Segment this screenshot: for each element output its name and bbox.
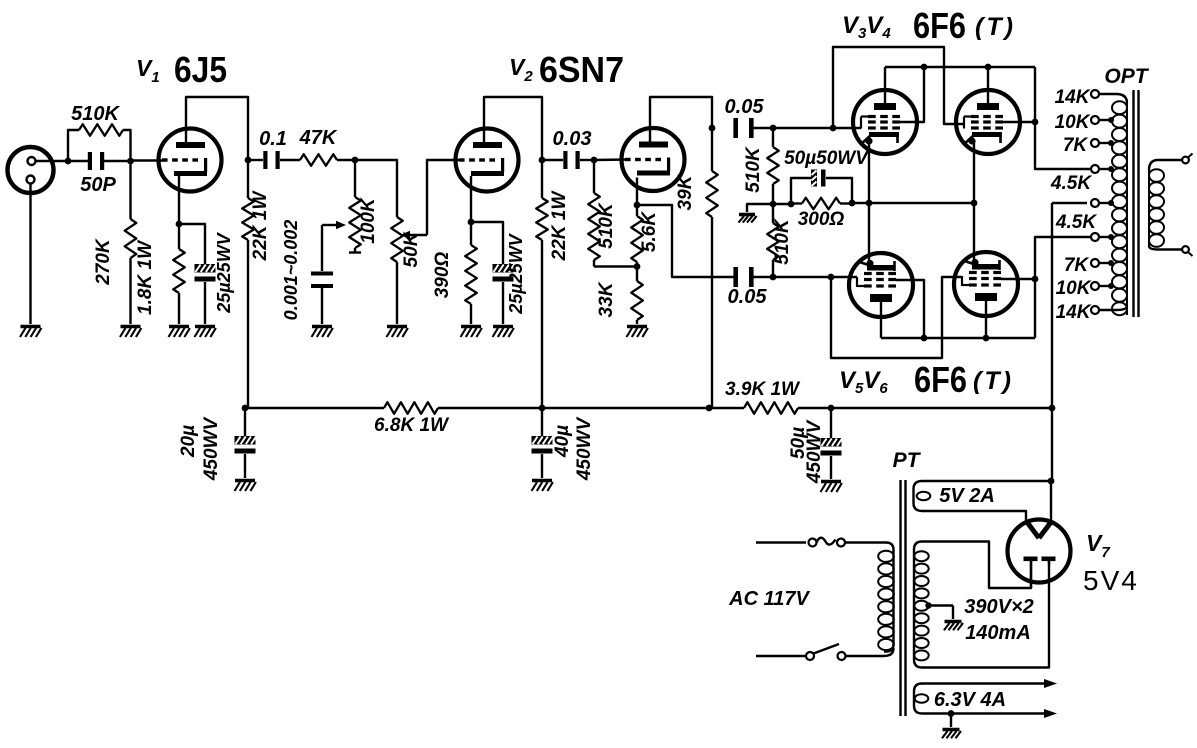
svg-text:(T): (T) <box>975 13 1016 41</box>
node L (top 0.05 out) <box>770 125 777 132</box>
node Q (300ohm left) <box>788 201 795 208</box>
node I (V2b plate / top 0.05) <box>709 125 716 132</box>
svg-text:5V4: 5V4 <box>1083 565 1139 596</box>
svg-text:5V 2A: 5V 2A <box>939 485 995 507</box>
ground (6.3V) <box>942 730 961 739</box>
svg-text:47K: 47K <box>299 127 338 149</box>
node AC (B+ / 39K) <box>706 405 713 412</box>
svg-text:510K: 510K <box>596 202 617 249</box>
node V (V4 plate) <box>985 64 992 71</box>
svg-text:22K 1W: 22K 1W <box>250 190 271 262</box>
node tap45Kb <box>1108 234 1114 240</box>
wire OPT 10K bottom lead <box>1099 285 1111 287</box>
wire OPT 7K lead <box>1099 142 1111 144</box>
wire B+ rail mid <box>438 407 744 409</box>
tube V4 6F6 <box>956 90 1020 154</box>
svg-text:450WV: 450WV <box>804 420 825 485</box>
wire jack hot to grid node <box>36 160 66 162</box>
ground (40u) <box>532 481 553 492</box>
ground (25u V2a) <box>493 327 514 338</box>
wire jack sleeve down <box>29 184 31 324</box>
wire V3 plate lead <box>884 67 886 103</box>
ground (33K) <box>627 327 648 338</box>
wire filament riser <box>1050 481 1052 521</box>
wire V3 screen tie <box>900 67 924 122</box>
wire OPT secondary bottom <box>1149 246 1182 250</box>
resistor 33K <box>636 267 638 282</box>
wire B+ rail left <box>245 407 384 409</box>
ground (270K) <box>120 327 141 338</box>
resistor 39K <box>711 128 713 171</box>
svg-text:0.05: 0.05 <box>725 96 765 118</box>
wire OPT 4.5K top lead <box>1099 168 1111 170</box>
transformer OPT secondary <box>1148 169 1150 247</box>
resistor 22K 1W (V1 plate load) <box>247 160 249 198</box>
svg-text:390V×2: 390V×2 <box>964 596 1034 618</box>
node U (V3 plate) <box>921 64 928 71</box>
wire splitter cathode out <box>637 205 734 277</box>
svg-text:450WV: 450WV <box>201 417 222 482</box>
capacitor 50u450WV <box>830 408 832 438</box>
resistor 390ohm <box>470 222 472 245</box>
svg-text:1.8K 1W: 1.8K 1W <box>135 239 156 315</box>
ground (390ohm) <box>461 327 482 338</box>
svg-text:7K: 7K <box>1063 135 1089 156</box>
svg-text:14K: 14K <box>1056 302 1092 323</box>
node B (V1 grid junction) <box>127 158 134 165</box>
svg-text:(T): (T) <box>973 367 1014 395</box>
node tap7Kt <box>1108 140 1114 146</box>
ground (bias node) <box>739 215 757 223</box>
svg-text:6F6: 6F6 <box>913 5 966 46</box>
wire OPT 10K lead <box>1099 119 1111 121</box>
svg-text:100K: 100K <box>358 197 379 244</box>
wire V4 screen tie <box>1003 121 1035 123</box>
svg-text:50K: 50K <box>401 231 422 267</box>
node J (V2b cathode) <box>634 202 641 209</box>
wire V7 left plate lead <box>1030 561 1032 588</box>
svg-text:0.03: 0.03 <box>553 128 592 150</box>
terminal 4.5K bottom <box>1091 233 1099 241</box>
wire cathode rail <box>852 202 973 204</box>
wire OPT 4.5K bottom lead <box>1099 236 1111 238</box>
wire V4 plate lead <box>987 67 989 103</box>
svg-text:7K: 7K <box>1064 255 1090 276</box>
capacitor 0.05 (bottom) <box>733 267 738 287</box>
svg-text:4.5K: 4.5K <box>1050 173 1092 194</box>
svg-text:510K: 510K <box>71 103 120 125</box>
svg-text:25µ25WV: 25µ25WV <box>506 232 526 314</box>
node Z (screen/plate rise) <box>1032 276 1039 283</box>
svg-text:140mA: 140mA <box>965 622 1031 644</box>
node T (rail/V4V6 cathodes) <box>971 200 978 207</box>
capacitor 0.001~0.002 <box>321 225 323 271</box>
svg-text:AC 117V: AC 117V <box>728 588 810 610</box>
ground (50K) <box>387 327 408 338</box>
wire 47K to node E <box>337 159 355 161</box>
resistor 3.9K 1W <box>744 402 798 414</box>
wire V2b plate to 39K node <box>650 97 712 144</box>
node Y (V6 plate) <box>983 335 990 342</box>
resistor 22K 1W (V2a plate load) <box>541 160 543 198</box>
wire 510K left riser <box>68 130 79 161</box>
switch S1 <box>806 652 814 660</box>
resistor 47K <box>300 154 337 166</box>
wire top 0.05 to V3 grid <box>773 127 861 129</box>
arrow 6.3V bottom <box>1044 709 1057 718</box>
node K (5.6K/33K junction) <box>634 263 641 270</box>
node D (V1 cathode) <box>176 221 183 228</box>
wire HV center tap <box>929 604 954 606</box>
wire AC bottom lead <box>756 655 806 657</box>
transformer PT HV secondary <box>914 542 1049 668</box>
node O (V5 grid) <box>828 274 835 281</box>
wire V1 cathode <box>178 176 180 224</box>
capacitor 50P <box>88 152 92 170</box>
ground (1.8K) <box>169 327 190 338</box>
wire node E to 50K <box>355 160 397 217</box>
tube V2a 6SN7 first half <box>456 129 519 192</box>
wire bottom plate rail to 4.5K tap <box>1035 237 1091 338</box>
wire bias node to 300ohm <box>773 203 791 205</box>
wire OPT CT lead <box>1052 202 1087 204</box>
node C (V1 plate / 0.1 cap) <box>245 157 252 164</box>
capacitor 50u50WV <box>791 178 811 204</box>
potentiometer 50K (volume) <box>391 217 403 262</box>
wire V6 screen tie <box>1001 278 1035 280</box>
capacitor 0.03 <box>542 159 563 161</box>
terminal 10K top <box>1091 116 1099 124</box>
node tap7Kb <box>1108 260 1114 266</box>
svg-text:510K: 510K <box>772 218 793 265</box>
node A (jack/510K junction) <box>65 158 72 165</box>
terminal 14K top <box>1091 90 1099 98</box>
svg-text:OPT: OPT <box>1104 65 1149 88</box>
svg-text:50µ50WV: 50µ50WV <box>784 148 869 169</box>
svg-text:40µ: 40µ <box>552 425 573 458</box>
capacitor 20u450WV <box>244 408 246 436</box>
input jack J1 <box>8 147 54 193</box>
tube V5 6F6 <box>849 253 913 317</box>
wiper arrow 50K <box>400 231 410 239</box>
svg-text:4.5K: 4.5K <box>1055 212 1097 233</box>
wire grid node to V2b <box>594 158 628 161</box>
resistor 1.8K 1W <box>178 224 180 249</box>
svg-text:PT: PT <box>893 449 922 472</box>
svg-text:6.3V 4A: 6.3V 4A <box>934 689 1006 711</box>
svg-text:270K: 270K <box>93 238 114 286</box>
capacitor 25u25WV (V1 bypass) <box>195 264 216 273</box>
resistor 510K (splitter grid) <box>593 160 595 193</box>
resistor 5.6K <box>636 205 638 216</box>
terminal 14K bottom <box>1091 306 1099 314</box>
wire bias node to ground <box>747 204 773 212</box>
wire B+ rail right <box>798 407 1052 409</box>
node P (grid return/bias junction) <box>770 201 777 208</box>
node AD (B+ / 50u) <box>828 405 835 412</box>
resistor 300ohm <box>791 202 802 204</box>
wire V3-V5 cathode line <box>868 141 870 264</box>
wire OPT 14K bottom lead <box>1099 306 1127 310</box>
wire AC top lead <box>756 541 806 543</box>
wire V5 screen tie <box>896 280 924 338</box>
svg-text:6SN7: 6SN7 <box>539 49 624 90</box>
terminal CT <box>1091 199 1099 207</box>
transformer PT core <box>899 480 901 716</box>
svg-text:3.9K 1W: 3.9K 1W <box>725 379 801 400</box>
tube V7 5V4 rectifier <box>1008 520 1071 583</box>
terminal 7K bottom <box>1091 259 1099 267</box>
node W (screen/plate drop) <box>1032 119 1039 126</box>
svg-text:20µ: 20µ <box>178 425 199 458</box>
node R (cathode rail left) <box>849 200 856 207</box>
wire OPT 7K bottom lead <box>1099 262 1111 264</box>
wire cathode to bypass cap 2 <box>471 222 503 264</box>
svg-text:25µ25WV: 25µ25WV <box>214 231 234 313</box>
wire OPT 14K top lead <box>1099 94 1127 103</box>
svg-text:450WV: 450WV <box>574 417 595 482</box>
node tap10Kb <box>1108 283 1114 289</box>
wire top plate rail <box>885 66 1035 68</box>
ground (25u V1) <box>195 327 216 338</box>
wire V3/V4 grid bracket <box>833 47 964 128</box>
node HV center tap <box>925 602 931 608</box>
transformer PT primary <box>845 543 894 652</box>
resistor 270K <box>129 161 131 219</box>
wire V2a plate to top rail <box>484 97 542 160</box>
wire V4-V6 cathode line <box>973 141 975 263</box>
node E (tone/volume junction) <box>352 157 359 164</box>
terminal secondary top <box>1182 157 1189 164</box>
node S (rail/V3V5 cathodes) <box>866 200 873 207</box>
capacitor 25u25WV (V2a bypass) <box>493 264 514 273</box>
svg-text:33K: 33K <box>596 281 617 317</box>
potentiometer 100K (tone) <box>354 160 356 197</box>
fuse F1 <box>809 539 817 547</box>
svg-text:14K: 14K <box>1055 87 1091 108</box>
wire V5 plate lead <box>880 302 882 338</box>
wire V1 plate to top rail <box>186 97 248 160</box>
svg-text:300Ω: 300Ω <box>798 209 845 230</box>
terminal 4.5K top <box>1091 165 1099 173</box>
svg-text:50P: 50P <box>80 174 116 196</box>
capacitor 0.1 <box>248 159 263 161</box>
resistor 510K (input) <box>79 124 123 136</box>
wire OPT secondary top <box>1149 160 1182 170</box>
svg-text:510K: 510K <box>743 146 764 193</box>
node M (V3 grid) <box>830 125 837 132</box>
wire V6 plate lead <box>985 301 987 338</box>
wire 510K right riser <box>123 130 131 161</box>
node AE (B+ / OPT CT line) <box>1049 405 1056 412</box>
svg-text:5.6K: 5.6K <box>639 211 660 252</box>
svg-text:10K: 10K <box>1055 112 1091 133</box>
capacitor 40u450WV <box>541 408 543 436</box>
ground (jack) <box>20 327 41 338</box>
ground (tone cap) <box>312 327 333 338</box>
terminal 10K bottom <box>1091 282 1099 290</box>
node X (V5 plate) <box>921 335 928 342</box>
ground (20u) <box>235 481 256 492</box>
arrow 6.3V top <box>1044 679 1057 688</box>
node F (V2a plate / 0.03 cap) <box>539 157 546 164</box>
svg-text:10K: 10K <box>1056 278 1092 299</box>
wire OPT center tap / B+ to rectifier <box>1051 203 1053 481</box>
wire V5/V6 grid bracket <box>831 277 962 358</box>
svg-text:22K 1W: 22K 1W <box>549 190 570 262</box>
node AF (B+ / 5V / filament) <box>1048 478 1055 485</box>
svg-text:6.8K 1W: 6.8K 1W <box>374 415 450 436</box>
wire bottom 0.05 to V5 grid <box>773 276 857 278</box>
wire V7 right plate lead <box>1048 561 1050 565</box>
resistor 6.8K 1W <box>384 402 438 414</box>
svg-text:0.05: 0.05 <box>728 286 768 308</box>
node tapCT <box>1108 200 1114 206</box>
svg-text:39K: 39K <box>675 174 696 210</box>
tube V1 6J5 <box>159 129 222 192</box>
node H (V2b grid) <box>591 157 598 164</box>
wire V2a cathode <box>470 176 472 222</box>
transformer OPT core <box>1132 90 1134 317</box>
tube V6 6F6 <box>954 252 1018 316</box>
svg-text:390Ω: 390Ω <box>432 252 453 299</box>
wire 50K wiper to V2 grid <box>427 160 460 235</box>
node N (bottom 0.05 out) <box>770 274 777 281</box>
wire cathode to bypass cap <box>179 224 205 264</box>
node tap45Kt <box>1108 166 1114 172</box>
wire plate rail to 4.5K tap <box>1035 67 1091 169</box>
node G (V2a cathode) <box>468 219 475 226</box>
transformer OPT primary <box>1126 101 1128 315</box>
capacitor 0.05 (top) <box>733 118 738 138</box>
wire 6.3V ground stem <box>950 714 952 728</box>
resistor 510K (upper grid return) <box>772 128 774 147</box>
tube V2b 6SN7 second half <box>622 128 685 191</box>
wiper arrow 100K <box>322 224 337 226</box>
transformer PT 5V winding <box>914 481 1050 521</box>
transformer PT 6.3V winding <box>914 684 1052 714</box>
terminal secondary bottom <box>1182 246 1189 253</box>
wire grid node to V1 grid <box>131 159 166 161</box>
terminal 7K top <box>1091 139 1099 147</box>
tube V3 6F6 <box>853 90 917 154</box>
svg-text:0.001~0.002: 0.001~0.002 <box>281 220 301 321</box>
ground (HV CT) <box>944 622 963 631</box>
svg-text:6J5: 6J5 <box>174 49 227 90</box>
wire bottom plate rail <box>881 337 1035 339</box>
ground (50u) <box>821 482 842 493</box>
svg-text:0.1: 0.1 <box>259 128 287 150</box>
node tap10Kt <box>1108 117 1114 123</box>
resistor 510K (lower grid return) <box>772 204 774 223</box>
node AG (6.3V ground tap) <box>948 710 955 717</box>
svg-text:6F6: 6F6 <box>914 359 967 400</box>
node AA (B+ / 20u) <box>242 405 249 412</box>
node AB (B+ / 40u) <box>539 405 546 412</box>
wire V2b cathode <box>636 178 638 206</box>
